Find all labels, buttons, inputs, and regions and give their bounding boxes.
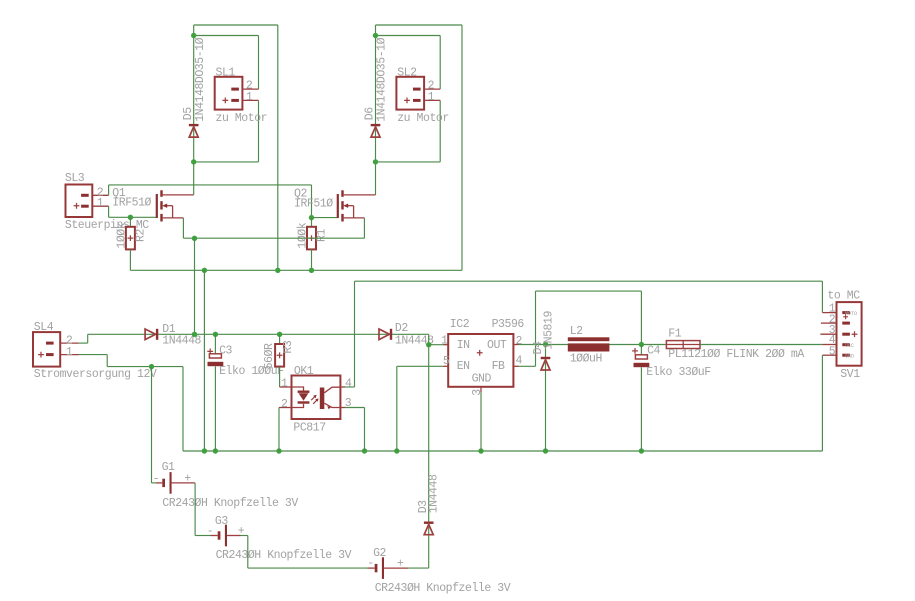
svg-text:1: 1	[428, 91, 435, 104]
wire SL2 pin1 drop	[439, 100, 441, 161]
pin 1 line SL1	[242, 99, 258, 101]
inductor L2	[568, 337, 610, 351]
pin pads SV1	[842, 311, 850, 314]
wire SL3 pin2 jog up	[108, 185, 110, 195]
svg-text:SL1: SL1	[216, 67, 236, 80]
svg-text:PL1121ØØ FLINK 2ØØ mA: PL1121ØØ FLINK 2ØØ mA	[668, 348, 804, 361]
svg-text:1: 1	[281, 378, 288, 391]
resistor R1	[307, 227, 316, 250]
wire EN horizontal	[397, 365, 444, 367]
svg-text:SV1: SV1	[840, 368, 860, 381]
wire G3 plus link	[241, 535, 248, 537]
capacitor C3	[208, 354, 224, 366]
junction y270 R1	[309, 268, 314, 273]
opto-coupler OK1	[292, 376, 341, 420]
svg-text:2: 2	[281, 398, 288, 411]
pin 2 line OK1	[279, 407, 292, 409]
pin 1 line SL4	[60, 354, 78, 356]
pin 4 line OK1	[340, 386, 345, 388]
svg-text:+: +	[184, 473, 191, 486]
wire loop1 left vertical (through D5 to Q1 drain)	[193, 25, 195, 195]
junction y270 loop1	[275, 268, 280, 273]
wire R3 bottom	[279, 367, 281, 387]
svg-text:VCC: VCC	[845, 343, 854, 349]
wire collector line to SV1	[355, 280, 823, 282]
svg-text:5: 5	[829, 346, 836, 359]
svg-text:F1: F1	[668, 328, 681, 341]
svg-text:-: -	[153, 473, 159, 486]
svg-text:G1: G1	[162, 461, 175, 474]
svg-text:IC2: IC2	[450, 318, 470, 331]
pin 3 line SV1	[820, 333, 836, 335]
wire SV1 pin5 drop	[821, 355, 823, 451]
pin 4 line IC2 FB	[513, 365, 518, 367]
wire Q1 source drop	[182, 218, 184, 238]
pin 4 line SV1	[822, 344, 836, 346]
wire OK1 pin3 to rail horizontal	[345, 407, 365, 409]
wire G3 to G2	[247, 536, 249, 569]
wire 12V jog down to IN	[428, 334, 430, 344]
junction 12V / C3	[213, 332, 218, 337]
wire R1 bottom	[311, 249, 313, 270]
svg-text:FB: FB	[492, 360, 505, 373]
wire R3 top	[279, 334, 281, 344]
origin R1	[309, 235, 315, 241]
pin 5 line IC2 EN	[444, 365, 449, 367]
wire source to 12V line	[194, 238, 196, 334]
svg-text:Stromversorgung 12V: Stromversorgung 12V	[34, 368, 157, 381]
pin 2 line SV1	[821, 322, 837, 324]
junction rail OK1 pin3	[362, 448, 367, 453]
pin 1 line SL3	[92, 205, 108, 207]
svg-text:1N4448: 1N4448	[428, 474, 441, 513]
svg-text:IRF51Ø: IRF51Ø	[294, 198, 333, 211]
svg-text:1: 1	[66, 346, 73, 359]
wire source rail	[183, 237, 364, 239]
svg-text:1ØØk: 1ØØk	[297, 222, 310, 248]
diode D6	[371, 124, 381, 137]
junction rail D4	[543, 448, 548, 453]
wire FB drop to output node	[640, 291, 642, 344]
wire G3 minus link	[195, 535, 210, 537]
wire G2 plus link	[408, 567, 429, 569]
origin R3	[277, 352, 283, 358]
wire R1 top	[311, 218, 313, 227]
junction OUT / D4	[543, 342, 548, 347]
battery G1	[162, 472, 171, 494]
svg-text:R2: R2	[135, 229, 148, 242]
pin 2 line SL4	[60, 342, 78, 344]
wire loop1 right vertical	[277, 25, 279, 270]
wire loop1 inner bottom	[194, 161, 259, 163]
svg-text:OK1: OK1	[294, 365, 314, 378]
svg-text:IN: IN	[457, 339, 470, 352]
diode D2	[379, 329, 392, 340]
connector SL4	[33, 332, 60, 367]
junction G1 tap	[149, 364, 154, 369]
svg-text:PC817: PC817	[293, 421, 325, 434]
junction rail C3	[213, 448, 218, 453]
wire C4 bottom	[640, 367, 642, 451]
wire OK1 pin3 drop	[364, 408, 366, 452]
junction source rail	[192, 236, 197, 241]
svg-text:GND: GND	[845, 354, 854, 360]
svg-text:1N5819: 1N5819	[543, 311, 556, 350]
wire G1 minus link	[152, 482, 157, 484]
junction loop1 top	[191, 33, 196, 38]
wire battery feed vertical	[428, 345, 430, 568]
wire loop2 inner bottom	[376, 161, 441, 163]
svg-text:EN: EN	[457, 360, 470, 373]
wire IN link	[429, 344, 444, 346]
pin 2 line SL3	[92, 194, 108, 196]
wire loop2 top	[376, 24, 463, 26]
svg-text:-: -	[207, 525, 213, 538]
svg-text:C4: C4	[647, 344, 660, 357]
opto internals OK1	[292, 387, 341, 409]
svg-text:3: 3	[471, 389, 484, 396]
pin 5 line SV1	[822, 354, 836, 356]
wire Q2 source drop	[363, 218, 365, 238]
svg-text:Elko 33ØuF: Elko 33ØuF	[646, 366, 711, 379]
svg-text:CR243ØH Knopfzelle 3V: CR243ØH Knopfzelle 3V	[216, 549, 352, 562]
connector SL1	[215, 77, 243, 110]
wire 12V line	[88, 333, 429, 335]
svg-text:MOTO: MOTO	[845, 311, 857, 317]
junction rail EN	[394, 448, 399, 453]
junction rail OK1 pin2	[276, 448, 281, 453]
wire x204 drop to ground rail	[203, 270, 205, 451]
pin line G1 plus	[172, 482, 196, 484]
origin C4	[632, 348, 638, 354]
pin 1 line OK1	[280, 386, 292, 388]
pin line G2 plus	[384, 567, 408, 569]
wire SL4 pin2 jog up	[87, 334, 89, 343]
junction IN node	[426, 342, 431, 347]
svg-text:1: 1	[246, 91, 253, 104]
diode D5	[189, 124, 199, 137]
wire FB link	[519, 365, 536, 367]
svg-text:R3: R3	[282, 340, 295, 353]
junction OUT node / C4 / FB	[639, 342, 644, 347]
svg-text:SL2: SL2	[397, 67, 417, 80]
svg-text:GND: GND	[472, 373, 492, 386]
svg-text:zu Motor: zu Motor	[216, 112, 268, 125]
battery G3	[218, 525, 227, 547]
wire loop1 top	[194, 24, 278, 26]
connector SL3	[66, 185, 93, 218]
junction rail C4	[639, 448, 644, 453]
wire pin1 horizontal	[107, 366, 183, 368]
wire SL3 pin1 jog down	[108, 206, 110, 217]
svg-text:SL3: SL3	[65, 172, 85, 185]
junction loop2 top	[373, 33, 378, 38]
pin pads SL1	[231, 88, 239, 91]
pin 1 line SL2	[424, 99, 440, 101]
wire pin2 rail (y270)	[130, 269, 462, 271]
wire SL4 pin1 jog down	[106, 355, 108, 367]
wire loop2 inner top	[376, 35, 441, 37]
pin 2 line IC2 OUT	[513, 344, 518, 346]
svg-text:+: +	[397, 558, 404, 571]
pin pads SL4	[46, 342, 54, 345]
diode D1	[145, 329, 158, 340]
fuse F1	[666, 341, 700, 349]
wire SL4 pin1 stub	[79, 354, 108, 356]
wire C3 top	[214, 334, 216, 354]
pin 1 line IC2 IN	[444, 344, 449, 346]
wire OK1 pin4 out	[345, 386, 355, 388]
wire C3 bottom	[214, 366, 216, 451]
svg-text:1: 1	[97, 197, 104, 210]
wire SL2 pin2 riser	[439, 36, 441, 90]
wire C4 top	[640, 345, 642, 355]
pin 2 line SL1	[242, 88, 258, 90]
svg-text:zu Motor: zu Motor	[397, 112, 449, 125]
svg-text:1N4148DO35-1Ø: 1N4148DO35-1Ø	[194, 37, 207, 121]
wire collector drop to SV1 pin1	[821, 281, 823, 312]
svg-text:4: 4	[345, 378, 352, 391]
wire G1 tap drop	[151, 367, 153, 483]
wire G2 minus link	[248, 567, 368, 569]
diode D3	[424, 522, 434, 535]
svg-text:OUT: OUT	[487, 339, 507, 352]
wire ground rail	[183, 450, 822, 452]
wire ground left drop	[182, 367, 184, 451]
pin pads SL3	[81, 194, 89, 197]
junction loop2 bottom	[373, 159, 378, 164]
wire loop2 right vertical	[461, 25, 463, 270]
pin line G3 plus	[227, 535, 241, 537]
wire gate Q1	[109, 216, 157, 218]
svg-text:C3: C3	[219, 345, 232, 358]
junction 12V / R3	[277, 332, 282, 337]
wire OUT line	[519, 344, 667, 346]
svg-text:G3: G3	[215, 515, 228, 528]
svg-text:D2: D2	[395, 322, 408, 335]
diode D4	[541, 357, 551, 370]
wire G1 to G3	[194, 483, 196, 536]
junction 12V / source net	[192, 332, 197, 337]
pin 3 line IC2 GND	[480, 387, 482, 392]
origin R2	[128, 235, 134, 241]
wire F1 to SV1 pin4	[700, 344, 822, 346]
svg-text:L2: L2	[570, 325, 583, 338]
svg-text:1: 1	[441, 335, 448, 348]
origin SV1	[843, 314, 848, 319]
pin 1 line SV1	[822, 312, 836, 314]
svg-text:CR243ØH Knopfzelle 3V: CR243ØH Knopfzelle 3V	[162, 497, 298, 510]
junction y270 x204	[202, 268, 207, 273]
pin 3 line OK1	[340, 407, 345, 409]
svg-text:1N4148DO35-1Ø: 1N4148DO35-1Ø	[376, 37, 389, 121]
wire loop2 left vertical (through D6 to Q2 drain)	[375, 25, 377, 195]
svg-text:P3596: P3596	[492, 318, 525, 331]
svg-text:-: -	[367, 557, 373, 570]
svg-text:2: 2	[516, 335, 523, 348]
svg-text:SL4: SL4	[34, 321, 54, 334]
junction gate Q1 / R2	[128, 215, 133, 220]
pin 2 line SL2	[424, 88, 440, 90]
svg-text:56ØR: 56ØR	[263, 343, 276, 369]
transistor Q2 IRF510	[337, 190, 376, 221]
wire FB riser	[535, 291, 537, 366]
origin IC2	[477, 350, 483, 356]
svg-text:4: 4	[516, 355, 523, 368]
pin line G3 minus	[211, 535, 218, 537]
wire gate Q2	[312, 217, 338, 219]
svg-text:1ØØk: 1ØØk	[116, 222, 129, 248]
pin line G2 minus	[368, 567, 375, 569]
junction rail x204	[202, 448, 207, 453]
wire SL4 pin2 stub	[79, 342, 88, 344]
capacitor C4	[634, 355, 650, 367]
svg-text:R1: R1	[316, 229, 329, 242]
wire OK1 pin4 riser	[354, 281, 356, 387]
svg-text:1ØØuH: 1ØØuH	[570, 353, 602, 366]
connector SV1	[837, 302, 862, 366]
battery G2	[375, 557, 384, 579]
wire SL1 pin2 riser	[258, 36, 260, 90]
transistor Q1 IRF510	[156, 190, 194, 221]
svg-text:IRF51Ø: IRF51Ø	[112, 197, 151, 210]
svg-text:to MC: to MC	[827, 290, 860, 303]
wire R2 top	[129, 217, 131, 227]
svg-text:G2: G2	[373, 547, 386, 560]
wire gate net Q2 horizontal	[109, 184, 312, 186]
resistor R3	[275, 344, 284, 367]
junction rail IC2 GND	[478, 448, 483, 453]
wire D4 drop	[545, 345, 547, 452]
junction loop1 bottom	[191, 159, 196, 164]
svg-text:CR243ØH Knopfzelle 3V: CR243ØH Knopfzelle 3V	[375, 582, 511, 595]
wire GND pin drop	[480, 392, 482, 451]
wire R2 bottom	[129, 249, 131, 270]
regulator IC2 P3596	[448, 334, 513, 387]
wire gate net Q2 drop	[311, 185, 313, 218]
wire loop1 inner top	[194, 35, 259, 37]
wire FB top horizontal	[536, 290, 642, 292]
junction gate Q2 / R1	[309, 215, 314, 220]
wire EN drop	[396, 366, 398, 451]
resistor R2	[126, 227, 135, 250]
origin C3	[207, 349, 213, 355]
wire OK1 pin2 drop	[278, 408, 280, 452]
pin pads SL2	[413, 88, 421, 91]
pin line G1 minus	[156, 482, 162, 484]
connector SL2	[396, 77, 424, 110]
wire SL1 pin1 drop	[258, 100, 260, 161]
